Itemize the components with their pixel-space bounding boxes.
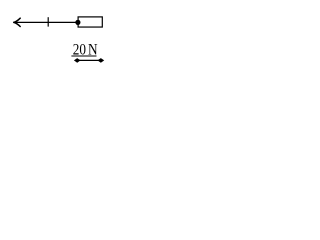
scale bar line bbox=[76, 59, 102, 61]
scale bar right diamond bbox=[98, 58, 105, 63]
scale bar left diamond bbox=[74, 58, 81, 63]
block (rectangle) bbox=[78, 17, 102, 27]
wire force-vector shaft bbox=[14, 21, 78, 23]
node dot (point of application) bbox=[75, 20, 80, 25]
arrowhead (left-pointing force direction) bbox=[14, 18, 20, 22]
tick mark (midpoint of vector) bbox=[47, 17, 49, 26]
underline of label bbox=[71, 55, 96, 57]
